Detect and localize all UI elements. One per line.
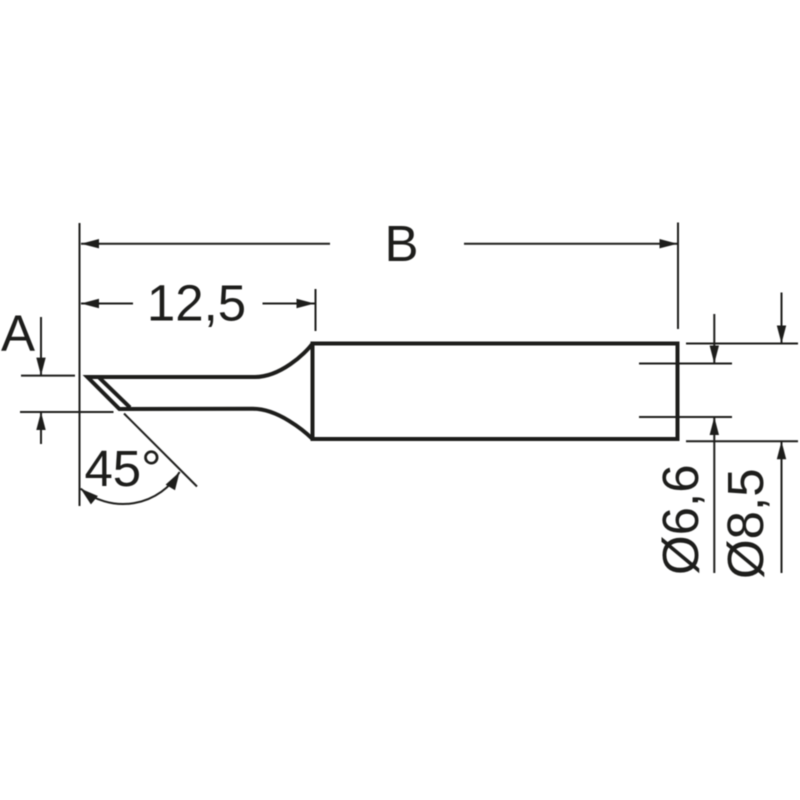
svg-text:12,5: 12,5 [147,275,246,332]
svg-text:45°: 45° [84,440,161,497]
svg-text:B: B [384,215,418,272]
svg-text:Ø6,6: Ø6,6 [652,464,709,575]
svg-text:Ø8,5: Ø8,5 [717,468,774,579]
svg-text:A: A [1,305,35,362]
